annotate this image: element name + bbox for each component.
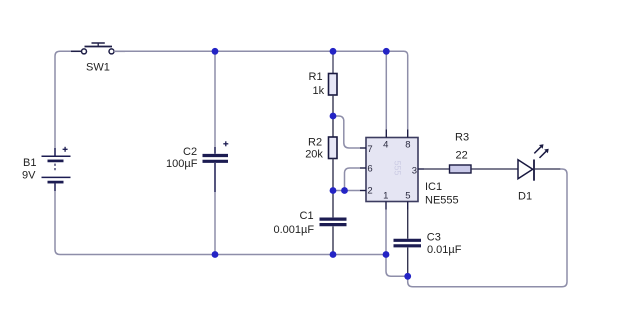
- resistor R1: [329, 74, 338, 96]
- svg-text:SW1: SW1: [86, 62, 110, 74]
- capacitor C2: [203, 141, 229, 192]
- svg-text:NE555: NE555: [425, 194, 459, 206]
- svg-text:R1: R1: [309, 71, 323, 83]
- svg-text:22: 22: [456, 149, 468, 161]
- node: rail-pin4 junction: [383, 48, 390, 55]
- switch SW1: [71, 43, 125, 54]
- wire: R2 bottom to node: [332, 159, 334, 191]
- svg-text:6: 6: [367, 163, 372, 174]
- node: ground-C2 junction: [212, 251, 219, 258]
- node: R1-R2-pin7 junction: [330, 113, 337, 120]
- wire: rail drop to IC pin 4: [385, 51, 387, 129]
- svg-text:1: 1: [383, 190, 388, 201]
- wire: node to IC pin 2: [333, 190, 360, 192]
- svg-text:1k: 1k: [313, 85, 325, 97]
- resistor R2: [329, 137, 338, 159]
- wire: LED cathode to right corner: [534, 168, 561, 170]
- svg-text:555: 555: [393, 161, 403, 176]
- wire: rail to R1 top: [332, 51, 334, 73]
- wire: node to IC pin 7: [335, 116, 360, 148]
- wire: rail drop to C2: [214, 51, 216, 147]
- wire: ground node down to C3 bottom node: [386, 255, 408, 277]
- battery B1: [42, 147, 71, 191]
- node: C3-return junction: [404, 273, 411, 280]
- node: ground-pin1 junction: [383, 251, 390, 258]
- svg-text:100µF: 100µF: [166, 158, 198, 170]
- svg-text:5: 5: [405, 190, 410, 201]
- wire: R3 to LED anode: [471, 168, 518, 170]
- svg-text:IC1: IC1: [425, 181, 442, 193]
- svg-text:9V: 9V: [22, 169, 36, 181]
- IC pin stubs: [360, 130, 424, 210]
- wire: battery + to SW1 (left vertical and top-left corner): [55, 51, 82, 148]
- wire: bottom return from node to LED cathode: [408, 169, 567, 287]
- wire: pin 3 to R3: [424, 168, 450, 170]
- svg-text:0.001µF: 0.001µF: [274, 224, 315, 236]
- svg-text:20k: 20k: [305, 149, 323, 161]
- svg-text:3: 3: [412, 165, 417, 176]
- wire: C1 bottom to ground rail: [332, 226, 334, 254]
- svg-text:0.01µF: 0.01µF: [427, 244, 462, 256]
- node: R2-C1-pin2 junction: [330, 187, 337, 194]
- wire: pin 5 to C3: [407, 210, 409, 239]
- wire: IC pin 6 elbow down to node: [345, 168, 361, 191]
- wire: battery - to ground rail: [55, 191, 386, 255]
- capacitor C1: [320, 219, 347, 225]
- svg-text:C2: C2: [183, 146, 197, 158]
- svg-text:B1: B1: [23, 157, 36, 169]
- svg-text:R3: R3: [455, 132, 469, 144]
- wire: node to C1 top: [332, 191, 334, 218]
- svg-text:C3: C3: [427, 231, 441, 243]
- node: rail-C2 junction: [212, 48, 219, 55]
- capacitor C3: [394, 240, 422, 246]
- svg-text:7: 7: [367, 144, 372, 155]
- wire: C3 bottom to node: [407, 247, 409, 276]
- LED D1: [518, 144, 549, 181]
- svg-text:2: 2: [367, 186, 372, 197]
- resistor R3: [450, 165, 472, 173]
- op IC1 555 body: [366, 138, 418, 202]
- svg-text:D1: D1: [518, 191, 532, 203]
- svg-text:8: 8: [405, 140, 410, 151]
- svg-text:4: 4: [383, 140, 388, 151]
- wire: top rail from SW1 to pin8 corner: [114, 51, 408, 129]
- node: ground-C1 junction: [330, 251, 337, 258]
- wire: R1 bottom to R2 top (through node): [332, 95, 334, 137]
- svg-text:R2: R2: [308, 136, 322, 148]
- node: pin6-pin2 junction: [341, 187, 348, 194]
- svg-text:C1: C1: [300, 210, 314, 222]
- wire: pin 1 to ground rail: [385, 210, 387, 255]
- wire: C2 to ground rail: [214, 192, 216, 255]
- node: rail-R1 junction: [330, 48, 337, 55]
